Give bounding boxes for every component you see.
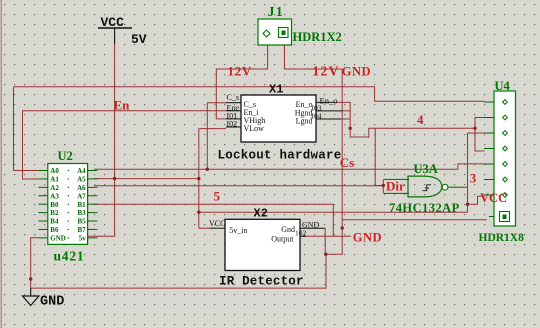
svg-text:VCC: VCC [480, 191, 507, 205]
svg-text:VLow: VLow [244, 124, 265, 133]
svg-text:U3A: U3A [414, 162, 438, 176]
svg-text:B0: B0 [50, 201, 59, 209]
svg-text:A7: A7 [77, 192, 86, 200]
svg-text:En: En [114, 98, 131, 113]
svg-text:A2: A2 [50, 184, 59, 192]
svg-text:A1: A1 [50, 176, 59, 184]
svg-text:Dir: Dir [386, 179, 405, 194]
svg-text:u421: u421 [54, 249, 85, 264]
svg-text:VCC: VCC [209, 219, 225, 228]
svg-text:A4: A4 [77, 167, 86, 175]
svg-text:3: 3 [470, 171, 477, 186]
svg-text:A3: A3 [50, 192, 59, 200]
svg-text:5: 5 [214, 189, 221, 204]
svg-text:5v: 5v [79, 234, 87, 242]
svg-text:C_s: C_s [227, 93, 239, 102]
svg-text:74HC132AP: 74HC132AP [389, 201, 460, 215]
svg-text:Cs: Cs [340, 155, 354, 170]
svg-text:A0: A0 [50, 167, 59, 175]
svg-text:HDR1X8: HDR1X8 [479, 232, 525, 244]
svg-text:J1: J1 [268, 5, 284, 20]
svg-text:U4: U4 [495, 79, 511, 93]
svg-text:HDR1X2: HDR1X2 [293, 30, 342, 44]
svg-text:GND: GND [40, 295, 64, 310]
svg-text:GND: GND [50, 234, 66, 242]
svg-text:5v_in: 5v_in [229, 226, 247, 235]
svg-text:GND: GND [353, 231, 382, 245]
svg-text:B5: B5 [78, 218, 87, 226]
svg-text:Output: Output [271, 234, 294, 243]
svg-text:102: 102 [295, 228, 307, 237]
svg-text:IR Detector: IR Detector [219, 275, 304, 289]
svg-text:5V: 5V [131, 32, 147, 47]
svg-text:Lgnd: Lgnd [296, 116, 313, 125]
svg-text:Lockout hardware: Lockout hardware [218, 149, 342, 163]
svg-text:B6: B6 [50, 226, 59, 234]
svg-text:A5: A5 [77, 176, 86, 184]
svg-text:X1: X1 [269, 83, 283, 97]
svg-text:En_o: En_o [320, 95, 338, 105]
svg-text:B2: B2 [50, 209, 59, 217]
svg-text:B1: B1 [78, 201, 87, 209]
svg-text:U2: U2 [58, 149, 73, 163]
svg-text:I02: I02 [227, 120, 238, 129]
svg-text:I04: I04 [312, 112, 322, 121]
svg-text:Gnd: Gnd [281, 225, 295, 234]
svg-text:B3: B3 [78, 209, 87, 217]
svg-text:X2: X2 [254, 206, 268, 220]
svg-text:B7: B7 [78, 226, 87, 234]
svg-text:A6: A6 [77, 184, 86, 192]
svg-text:12V: 12V [228, 64, 253, 79]
svg-text:GND: GND [342, 65, 371, 79]
svg-text:B4: B4 [50, 218, 59, 226]
svg-text:12V: 12V [313, 64, 340, 79]
svg-text:4: 4 [417, 112, 424, 127]
svg-text:VCC: VCC [101, 15, 125, 30]
